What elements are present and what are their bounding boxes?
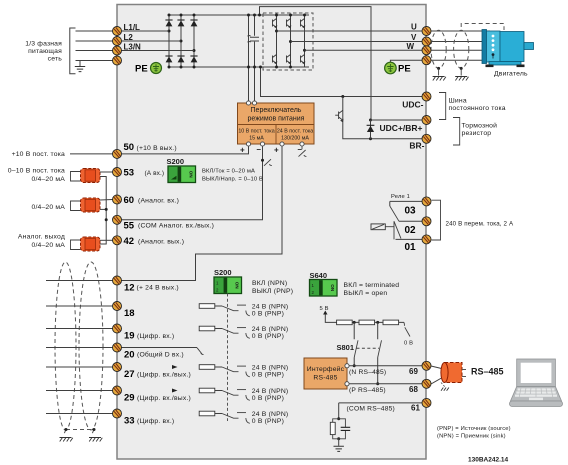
svg-text:5 В: 5 В [320,306,329,312]
svg-text:L1/L: L1/L [124,23,141,32]
svg-text:0 В: 0 В [404,340,413,346]
svg-text:BR-: BR- [409,141,424,151]
svg-text:0/4–20 мА: 0/4–20 мА [31,242,65,249]
svg-text:03: 03 [405,206,417,217]
svg-text:постоянного тока: постоянного тока [449,105,506,112]
svg-text:(COM Аналог. вх./вых.): (COM Аналог. вх./вых.) [138,223,214,230]
svg-text:(Аналог. вх.): (Аналог. вх.) [138,198,179,205]
svg-text:(Цифр. вх./вых.): (Цифр. вх./вых.) [137,395,191,402]
svg-text:ВЫКЛ (PNP): ВЫКЛ (PNP) [252,288,293,295]
svg-text:(Цифр. вх.): (Цифр. вх.) [137,418,174,425]
svg-text:10 В пост. тока: 10 В пост. тока [238,129,274,135]
svg-text:UDC-: UDC- [402,100,423,110]
svg-text:(COM RS–485): (COM RS–485) [347,406,395,413]
svg-text:33: 33 [124,416,135,427]
svg-text:12: 12 [124,282,135,293]
svg-text:S200: S200 [214,268,232,277]
svg-text:130BA242.14: 130BA242.14 [468,457,508,464]
svg-text:Шина: Шина [449,97,467,104]
svg-text:(P RS–485): (P RS–485) [349,387,386,394]
svg-text:PE: PE [135,64,148,75]
svg-text:ВЫКЛ/Напр. = 0–10 В: ВЫКЛ/Напр. = 0–10 В [202,177,263,183]
svg-text:27: 27 [124,369,135,380]
svg-text:0/4–20 мА: 0/4–20 мА [31,204,65,211]
svg-text:W: W [407,42,415,51]
svg-text:PE: PE [398,64,411,75]
svg-text:Тормозной: Тормозной [462,121,498,129]
svg-text:24 В пост. тока: 24 В пост. тока [277,129,313,135]
svg-text:1/3 фазная: 1/3 фазная [25,41,62,48]
svg-text:режимов питания: режимов питания [248,116,305,123]
svg-text:RS-485: RS-485 [313,375,337,382]
svg-text:(Цифр. вх./вых.): (Цифр. вх./вых.) [137,371,191,378]
svg-text:ВКЛ (NPN): ВКЛ (NPN) [252,280,287,287]
svg-text:02: 02 [405,225,417,236]
svg-text:42: 42 [124,236,135,247]
svg-text:+10 В пост. тока: +10 В пост. тока [12,151,65,158]
svg-text:UDC+/BR+: UDC+/BR+ [380,123,423,133]
svg-text:S640: S640 [310,271,328,280]
svg-text:20: 20 [124,349,135,360]
svg-text:сеть: сеть [48,56,63,63]
svg-text:(А вх.): (А вх.) [145,170,165,177]
svg-text:ВКЛ = terminated: ВКЛ = terminated [344,282,400,289]
svg-text:ВКЛ/Ток = 0–20 мА: ВКЛ/Ток = 0–20 мА [202,169,255,175]
svg-text:Аналог. выход: Аналог. выход [18,233,65,240]
svg-text:резистор: резистор [462,130,492,137]
svg-text:Реле 1: Реле 1 [391,194,410,200]
svg-text:0/4–20 мА: 0/4–20 мА [31,176,65,183]
svg-text:60: 60 [124,195,135,206]
svg-text:(Цифр. вх.): (Цифр. вх.) [137,333,174,340]
svg-text:18: 18 [124,308,135,319]
svg-text:130/200 мА: 130/200 мА [281,136,309,142]
svg-text:0–10 В пост. тока: 0–10 В пост. тока [8,167,65,174]
svg-text:53: 53 [124,168,135,179]
svg-text:–: – [257,145,262,154]
svg-text:(+ 24 В вых.): (+ 24 В вых.) [137,285,179,292]
svg-text:19: 19 [124,331,135,342]
svg-text:+: + [240,146,245,155]
svg-text:L3/N: L3/N [124,43,142,52]
svg-text:(PNP) = Источник (source): (PNP) = Источник (source) [437,426,511,432]
svg-text:68: 68 [409,385,418,394]
svg-text:L2: L2 [124,33,134,42]
svg-text:(Аналог. вых.): (Аналог. вых.) [138,238,184,245]
svg-text:+: + [274,146,279,155]
svg-text:Переключатель: Переключатель [251,107,302,114]
svg-text:Двигатель: Двигатель [494,71,528,78]
svg-text:50: 50 [124,142,135,153]
svg-text:15 мА: 15 мА [249,136,264,142]
svg-text:69: 69 [409,367,418,376]
svg-text:29: 29 [124,393,135,404]
svg-text:ВЫКЛ = open: ВЫКЛ = open [344,290,388,297]
svg-text:V: V [411,33,417,42]
svg-text:U: U [411,23,417,32]
svg-text:61: 61 [411,404,420,413]
svg-text:(Общий D вх.): (Общий D вх.) [137,351,184,359]
svg-text:RS–485: RS–485 [471,366,504,376]
svg-text:S801: S801 [337,343,355,352]
svg-text:питающая: питающая [28,48,62,55]
svg-text:240 В перем. тока, 2 А: 240 В перем. тока, 2 А [446,221,514,228]
svg-text:(N RS–485): (N RS–485) [349,369,386,376]
svg-text:Интерфейс: Интерфейс [307,365,345,373]
svg-text:(NPN) = Приемник (sink): (NPN) = Приемник (sink) [437,434,506,440]
svg-text:S200: S200 [167,157,185,166]
svg-text:(+10 В вых.): (+10 В вых.) [137,145,177,152]
svg-text:55: 55 [124,220,135,231]
svg-text:01: 01 [405,242,417,253]
